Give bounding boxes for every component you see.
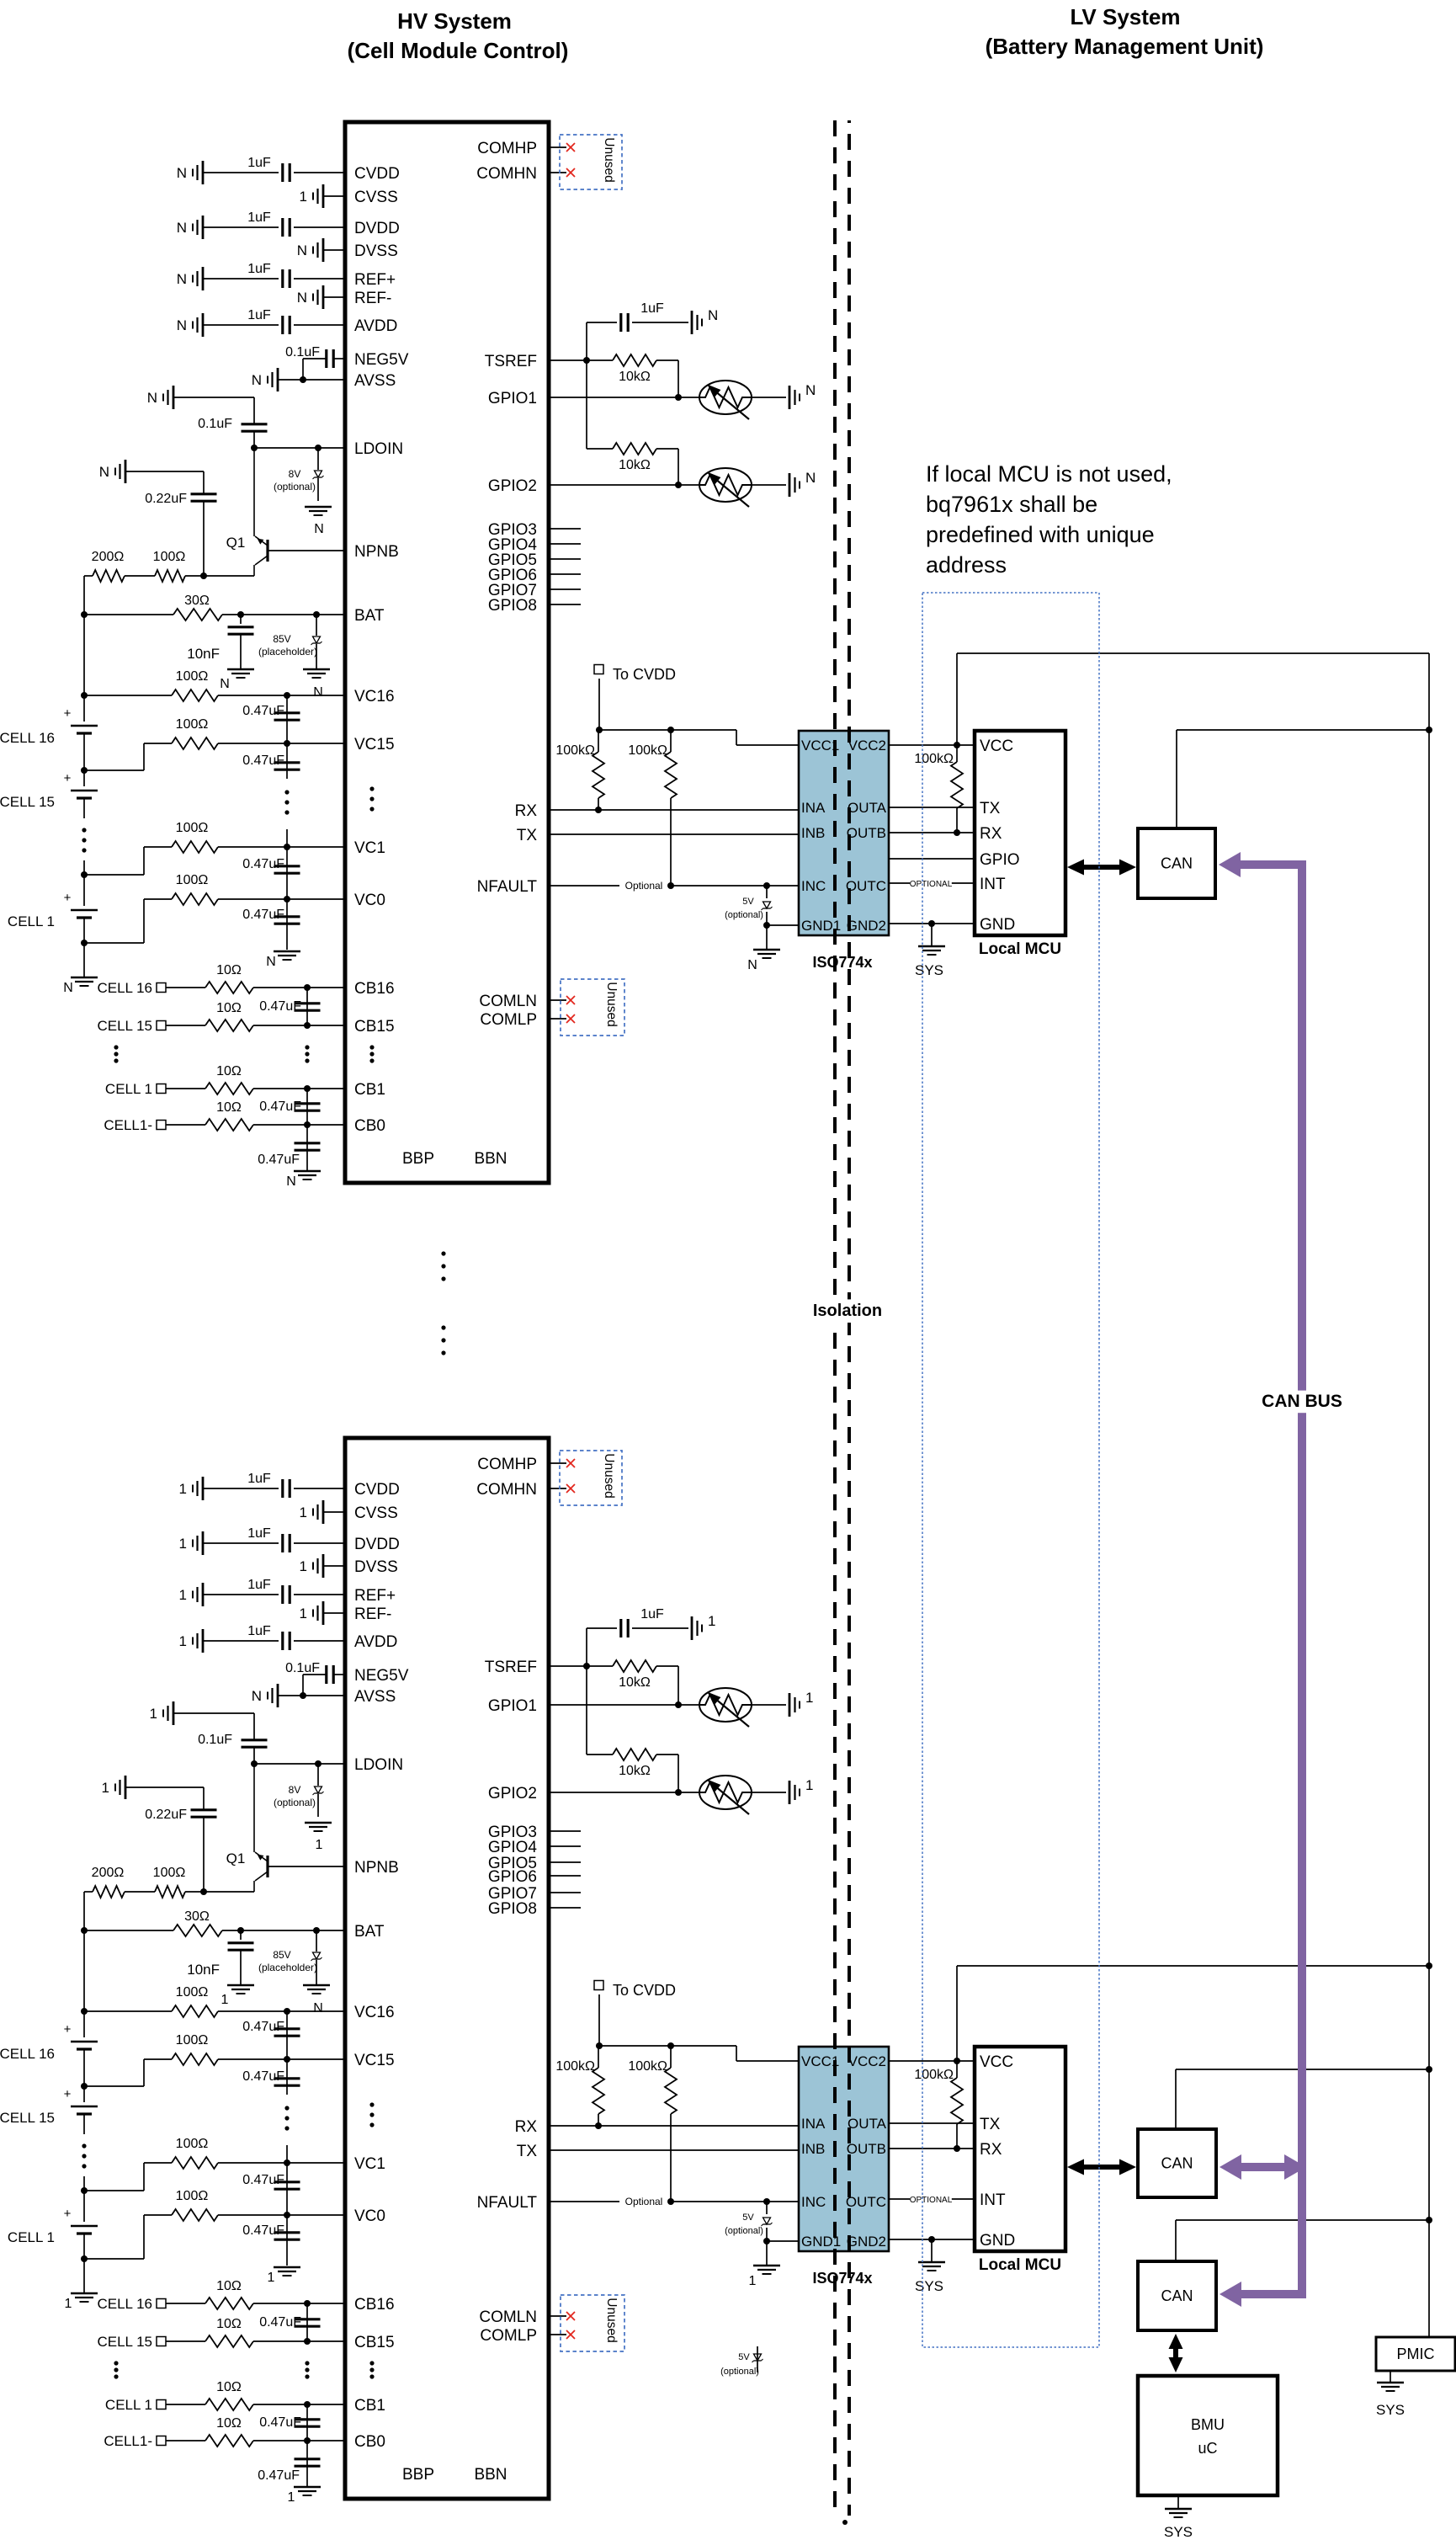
svg-text:TSREF: TSREF <box>485 353 537 370</box>
svg-text:N: N <box>177 317 187 333</box>
svg-text:N: N <box>297 242 307 258</box>
svg-text:CB16: CB16 <box>354 2296 395 2314</box>
svg-text:5V: 5V <box>738 2352 750 2362</box>
svg-text:10nF: 10nF <box>187 1962 220 1978</box>
svg-text:1: 1 <box>150 1706 157 1722</box>
svg-text:100Ω: 100Ω <box>176 717 209 732</box>
svg-text:1uF: 1uF <box>640 301 664 316</box>
svg-text:CELL 16: CELL 16 <box>0 730 55 746</box>
svg-text:CELL 16: CELL 16 <box>0 2046 55 2062</box>
svg-text:VC1: VC1 <box>354 839 385 857</box>
svg-text:AVSS: AVSS <box>354 372 396 390</box>
svg-text:0.47uF: 0.47uF <box>259 2315 301 2330</box>
svg-text:1: 1 <box>179 1481 187 1497</box>
svg-text:AVSS: AVSS <box>354 1688 396 1706</box>
svg-text:GND2: GND2 <box>847 2234 886 2250</box>
svg-text:ISO774x: ISO774x <box>812 954 872 971</box>
svg-text:0.47uF: 0.47uF <box>242 2223 284 2238</box>
svg-text:(optional): (optional) <box>725 2226 763 2236</box>
svg-text:VC16: VC16 <box>354 688 395 706</box>
svg-text:N: N <box>708 307 718 323</box>
svg-text:SYS: SYS <box>915 962 943 978</box>
svg-text:CVDD: CVDD <box>354 1481 400 1499</box>
svg-text:CELL 1: CELL 1 <box>8 913 55 929</box>
svg-text:N: N <box>99 464 109 480</box>
svg-text:0.1uF: 0.1uF <box>285 1661 320 1675</box>
svg-text:10kΩ: 10kΩ <box>619 1764 651 1778</box>
svg-text:BBN: BBN <box>474 2466 507 2484</box>
svg-text:Q1: Q1 <box>226 1850 246 1866</box>
svg-text:N: N <box>63 981 73 995</box>
svg-text:Isolation: Isolation <box>813 1302 882 1320</box>
svg-text:ISO774x: ISO774x <box>812 2270 872 2287</box>
svg-text:VC1: VC1 <box>354 2155 385 2173</box>
svg-text:100kΩ: 100kΩ <box>555 2059 595 2074</box>
svg-text:1: 1 <box>288 2490 295 2505</box>
svg-text:REF+: REF+ <box>354 1587 396 1605</box>
svg-text:200Ω: 200Ω <box>92 1866 125 1880</box>
svg-text:1: 1 <box>708 1613 715 1629</box>
svg-text:CB0: CB0 <box>354 2433 385 2451</box>
svg-text:GND: GND <box>980 2232 1015 2250</box>
svg-text:To CVDD: To CVDD <box>613 666 676 683</box>
svg-text:VC15: VC15 <box>354 736 395 753</box>
svg-text:CB15: CB15 <box>354 1018 395 1036</box>
svg-text:10Ω: 10Ω <box>216 1064 242 1078</box>
svg-text:0.47uF: 0.47uF <box>242 908 284 922</box>
svg-text:N: N <box>805 470 816 486</box>
svg-text:AVDD: AVDD <box>354 1633 397 1651</box>
svg-text:VC0: VC0 <box>354 2207 385 2225</box>
svg-text:Q1: Q1 <box>226 535 246 551</box>
svg-text:COMHP: COMHP <box>477 1456 537 1473</box>
svg-text:CAN: CAN <box>1161 2287 1193 2304</box>
svg-text:0.47uF: 0.47uF <box>259 1100 301 1114</box>
svg-text:85V: 85V <box>273 633 290 645</box>
svg-text:INB: INB <box>801 2141 825 2157</box>
svg-text:CELL1-: CELL1- <box>104 2433 152 2449</box>
svg-text:CELL 1: CELL 1 <box>8 2229 55 2245</box>
svg-text:+: + <box>64 891 72 905</box>
svg-text:1uF: 1uF <box>247 210 271 225</box>
svg-text:LDOIN: LDOIN <box>354 440 403 458</box>
svg-text:VC16: VC16 <box>354 2004 395 2021</box>
svg-text:GPIO8: GPIO8 <box>488 1900 537 1918</box>
svg-text:VC0: VC0 <box>354 892 385 909</box>
svg-text:100kΩ: 100kΩ <box>628 743 667 758</box>
svg-text:0.1uF: 0.1uF <box>198 1733 232 1747</box>
svg-text:1: 1 <box>805 1690 813 1706</box>
svg-text:100kΩ: 100kΩ <box>628 2059 667 2074</box>
svg-text:0.47uF: 0.47uF <box>258 2468 300 2483</box>
svg-text:TX: TX <box>517 827 538 844</box>
svg-text:N: N <box>297 290 307 306</box>
svg-text:LDOIN: LDOIN <box>354 1756 403 1774</box>
svg-text:0.1uF: 0.1uF <box>285 345 320 359</box>
svg-text:CB15: CB15 <box>354 2334 395 2351</box>
svg-text:1uF: 1uF <box>247 1624 271 1638</box>
svg-text:1uF: 1uF <box>247 1578 271 1592</box>
svg-text:(Cell Module Control): (Cell Module Control) <box>348 38 569 63</box>
svg-text:CELL 16: CELL 16 <box>97 2296 152 2312</box>
svg-text:+: + <box>64 706 72 721</box>
svg-text:Optional: Optional <box>625 880 663 892</box>
svg-text:TX: TX <box>517 2143 538 2160</box>
svg-text:VCC2: VCC2 <box>848 2053 886 2069</box>
svg-text:8V: 8V <box>289 468 301 480</box>
svg-text:1uF: 1uF <box>640 1607 664 1621</box>
svg-text:Unused: Unused <box>602 1453 616 1498</box>
svg-text:TX: TX <box>980 2116 1001 2133</box>
svg-text:CVSS: CVSS <box>354 189 398 206</box>
svg-text:(placeholder): (placeholder) <box>258 1962 317 1973</box>
svg-text:N: N <box>747 958 757 972</box>
svg-text:Unused: Unused <box>604 982 619 1026</box>
svg-text:+: + <box>64 2207 72 2221</box>
svg-text:100kΩ: 100kΩ <box>914 2068 954 2082</box>
svg-text:COMHN: COMHN <box>476 1481 537 1499</box>
svg-text:CB1: CB1 <box>354 1081 385 1099</box>
svg-text:8V: 8V <box>289 1784 301 1796</box>
svg-text:INT: INT <box>980 876 1006 893</box>
svg-text:10Ω: 10Ω <box>216 2279 242 2293</box>
svg-text:CELL 15: CELL 15 <box>97 2334 152 2350</box>
svg-text:RX: RX <box>980 2141 1002 2159</box>
svg-text:0.47uF: 0.47uF <box>242 857 284 871</box>
svg-text:N: N <box>266 955 276 969</box>
svg-text:100Ω: 100Ω <box>176 2033 209 2047</box>
svg-text:Local MCU: Local MCU <box>979 940 1061 958</box>
svg-text:INC: INC <box>801 2194 826 2210</box>
svg-text:NEG5V: NEG5V <box>354 1667 409 1685</box>
svg-text:(optional): (optional) <box>274 1797 316 1808</box>
svg-text:N: N <box>805 382 816 398</box>
svg-text:1: 1 <box>179 1633 187 1649</box>
svg-text:CVSS: CVSS <box>354 1504 398 1522</box>
svg-text:address: address <box>926 552 1007 578</box>
svg-text:100Ω: 100Ω <box>176 873 209 887</box>
svg-text:1: 1 <box>65 2297 72 2311</box>
svg-text:To CVDD: To CVDD <box>613 1982 676 1999</box>
svg-text:100Ω: 100Ω <box>176 821 209 835</box>
svg-text:100Ω: 100Ω <box>176 1985 209 2000</box>
svg-text:N: N <box>313 685 323 700</box>
svg-text:0.47uF: 0.47uF <box>242 753 284 768</box>
svg-text:N: N <box>252 372 262 388</box>
svg-text:CELL 1: CELL 1 <box>105 1081 152 1097</box>
svg-text:+: + <box>64 2022 72 2037</box>
svg-text:OUTA: OUTA <box>848 800 887 816</box>
svg-text:REF+: REF+ <box>354 271 396 289</box>
svg-text:CAN BUS: CAN BUS <box>1262 1392 1342 1411</box>
svg-text:Unused: Unused <box>604 2298 619 2342</box>
svg-text:100kΩ: 100kΩ <box>914 752 954 766</box>
svg-text:INA: INA <box>801 800 826 816</box>
svg-text:(optional): (optional) <box>725 910 763 920</box>
svg-text:GPIO6: GPIO6 <box>488 1868 537 1886</box>
svg-text:0.47uF: 0.47uF <box>259 2415 301 2430</box>
svg-text:REF-: REF- <box>354 290 391 307</box>
svg-text:30Ω: 30Ω <box>184 594 210 608</box>
svg-text:5V: 5V <box>742 2213 754 2223</box>
svg-text:+: + <box>64 771 72 785</box>
svg-text:CELL1-: CELL1- <box>104 1117 152 1133</box>
svg-text:1: 1 <box>179 1536 187 1552</box>
svg-text:(placeholder): (placeholder) <box>258 646 317 658</box>
svg-text:10Ω: 10Ω <box>216 2416 242 2431</box>
svg-text:10Ω: 10Ω <box>216 963 242 977</box>
svg-text:DVSS: DVSS <box>354 1558 398 1576</box>
svg-text:GPIO: GPIO <box>980 851 1020 869</box>
svg-text:COMLP: COMLP <box>480 1011 537 1029</box>
svg-text:PMIC: PMIC <box>1397 2346 1435 2362</box>
svg-text:BAT: BAT <box>354 607 385 625</box>
svg-text:1: 1 <box>300 1605 307 1621</box>
svg-text:BBP: BBP <box>402 2466 434 2484</box>
svg-text:0.1uF: 0.1uF <box>198 417 232 431</box>
svg-text:CB16: CB16 <box>354 980 395 998</box>
svg-text:100Ω: 100Ω <box>176 2189 209 2203</box>
svg-text:NPNB: NPNB <box>354 543 399 561</box>
svg-text:100kΩ: 100kΩ <box>555 743 595 758</box>
svg-text:0.22uF: 0.22uF <box>145 1808 187 1822</box>
svg-text:1: 1 <box>268 2271 275 2285</box>
svg-text:1: 1 <box>102 1780 109 1796</box>
svg-text:NPNB: NPNB <box>354 1859 399 1877</box>
svg-text:Optional: Optional <box>625 2196 663 2207</box>
svg-text:COMLN: COMLN <box>479 993 537 1010</box>
svg-text:10kΩ: 10kΩ <box>619 370 651 384</box>
svg-text:1: 1 <box>300 1504 307 1520</box>
svg-text:0.47uF: 0.47uF <box>259 999 301 1014</box>
svg-text:OUTB: OUTB <box>847 2141 886 2157</box>
svg-text:10Ω: 10Ω <box>216 1100 242 1115</box>
svg-text:CAN: CAN <box>1161 855 1193 872</box>
svg-text:BBP: BBP <box>402 1150 434 1168</box>
svg-text:0.47uF: 0.47uF <box>242 2069 284 2084</box>
svg-text:(Battery Management Unit): (Battery Management Unit) <box>986 34 1264 59</box>
svg-text:BBN: BBN <box>474 1150 507 1168</box>
svg-text:0.47uF: 0.47uF <box>242 704 284 718</box>
svg-text:TX: TX <box>980 800 1001 817</box>
svg-text:N: N <box>286 1174 296 1189</box>
svg-text:1uF: 1uF <box>247 1526 271 1541</box>
svg-text:NFAULT: NFAULT <box>477 2194 538 2212</box>
svg-text:1uF: 1uF <box>247 262 271 276</box>
svg-text:10nF: 10nF <box>187 646 220 662</box>
svg-text:GND2: GND2 <box>847 918 886 934</box>
svg-text:1: 1 <box>805 1777 813 1793</box>
svg-text:BAT: BAT <box>354 1923 385 1941</box>
svg-text:(optional): (optional) <box>720 2367 759 2377</box>
svg-text:LV System: LV System <box>1070 4 1180 29</box>
svg-text:COMLP: COMLP <box>480 2327 537 2345</box>
svg-text:1uF: 1uF <box>247 156 271 170</box>
svg-text:CB1: CB1 <box>354 2397 385 2415</box>
svg-text:CELL 15: CELL 15 <box>0 794 55 810</box>
svg-text:CELL 1: CELL 1 <box>105 2397 152 2413</box>
svg-text:bq7961x shall be: bq7961x shall be <box>926 492 1097 517</box>
svg-text:100Ω: 100Ω <box>176 669 209 684</box>
svg-text:DVSS: DVSS <box>354 242 398 260</box>
svg-text:N: N <box>147 390 157 406</box>
svg-text:COMLN: COMLN <box>479 2308 537 2326</box>
svg-text:AVDD: AVDD <box>354 317 397 335</box>
svg-text:10kΩ: 10kΩ <box>619 1675 651 1690</box>
svg-text:30Ω: 30Ω <box>184 1909 210 1924</box>
svg-text:REF-: REF- <box>354 1605 391 1623</box>
svg-text:1: 1 <box>221 1993 229 2007</box>
svg-text:predefined with unique: predefined with unique <box>926 522 1155 547</box>
svg-text:HV System: HV System <box>397 8 512 34</box>
svg-text:SYS: SYS <box>1164 2524 1193 2540</box>
svg-text:OUTC: OUTC <box>846 878 886 894</box>
svg-text:CELL 16: CELL 16 <box>97 980 152 996</box>
svg-text:1: 1 <box>316 1838 323 1852</box>
svg-text:VCC: VCC <box>980 2053 1013 2071</box>
svg-text:+: + <box>64 2087 72 2101</box>
svg-text:OPTIONAL: OPTIONAL <box>910 880 953 889</box>
svg-text:1: 1 <box>749 2274 757 2288</box>
svg-text:Local MCU: Local MCU <box>979 2256 1061 2274</box>
svg-text:GND: GND <box>980 916 1015 934</box>
svg-text:100Ω: 100Ω <box>153 550 186 564</box>
svg-text:85V: 85V <box>273 1949 290 1961</box>
svg-text:200Ω: 200Ω <box>92 550 125 564</box>
svg-text:INA: INA <box>801 2116 826 2132</box>
svg-text:RX: RX <box>515 2118 538 2136</box>
svg-text:10Ω: 10Ω <box>216 1001 242 1015</box>
svg-text:1: 1 <box>300 1558 307 1574</box>
svg-text:INC: INC <box>801 878 826 894</box>
svg-text:CELL 15: CELL 15 <box>0 2110 55 2126</box>
svg-text:DVDD: DVDD <box>354 1536 400 1553</box>
svg-text:N: N <box>177 271 187 287</box>
svg-text:CAN: CAN <box>1161 2155 1193 2172</box>
svg-text:0.47uF: 0.47uF <box>242 2173 284 2187</box>
svg-text:GPIO2: GPIO2 <box>488 477 537 495</box>
svg-text:BMU: BMU <box>1191 2416 1225 2433</box>
svg-text:CVDD: CVDD <box>354 165 400 183</box>
svg-text:INB: INB <box>801 825 825 841</box>
svg-text:GPIO2: GPIO2 <box>488 1785 537 1802</box>
svg-text:DVDD: DVDD <box>354 220 400 237</box>
svg-text:1: 1 <box>300 189 307 205</box>
svg-text:100Ω: 100Ω <box>176 2137 209 2151</box>
svg-text:N: N <box>314 522 324 536</box>
svg-text:GPIO1: GPIO1 <box>488 390 537 407</box>
svg-text:TSREF: TSREF <box>485 1659 537 1676</box>
svg-text:N: N <box>177 220 187 236</box>
svg-text:Unused: Unused <box>602 137 616 182</box>
svg-text:1uF: 1uF <box>247 308 271 322</box>
svg-text:1: 1 <box>179 1587 187 1603</box>
svg-text:10Ω: 10Ω <box>216 2317 242 2331</box>
svg-text:0.47uF: 0.47uF <box>242 2020 284 2034</box>
svg-text:N: N <box>313 2001 323 2015</box>
svg-text:COMHP: COMHP <box>477 140 537 157</box>
svg-text:N: N <box>220 677 230 691</box>
svg-text:1uF: 1uF <box>247 1472 271 1486</box>
svg-text:CELL 15: CELL 15 <box>97 1018 152 1034</box>
svg-text:VC15: VC15 <box>354 2052 395 2069</box>
svg-text:VCC: VCC <box>980 738 1013 755</box>
svg-text:10Ω: 10Ω <box>216 2380 242 2394</box>
svg-text:NEG5V: NEG5V <box>354 351 409 369</box>
svg-text:OUTB: OUTB <box>847 825 886 841</box>
svg-text:NFAULT: NFAULT <box>477 878 538 896</box>
svg-text:GPIO4: GPIO4 <box>488 1839 538 1856</box>
svg-text:COMHN: COMHN <box>476 165 537 183</box>
svg-text:GPIO1: GPIO1 <box>488 1697 537 1715</box>
svg-text:0.22uF: 0.22uF <box>145 492 187 506</box>
svg-text:OPTIONAL: OPTIONAL <box>910 2196 953 2205</box>
svg-text:OUTC: OUTC <box>846 2194 886 2210</box>
svg-text:100Ω: 100Ω <box>153 1866 186 1880</box>
svg-text:uC: uC <box>1198 2440 1217 2457</box>
svg-text:RX: RX <box>515 802 538 820</box>
svg-text:SYS: SYS <box>1376 2402 1405 2418</box>
svg-text:SYS: SYS <box>915 2278 943 2294</box>
svg-text:10kΩ: 10kΩ <box>619 458 651 472</box>
svg-text:OUTA: OUTA <box>848 2116 887 2132</box>
svg-text:GPIO8: GPIO8 <box>488 597 537 615</box>
svg-text:RX: RX <box>980 825 1002 843</box>
svg-text:0.47uF: 0.47uF <box>258 1153 300 1167</box>
svg-text:N: N <box>177 165 187 181</box>
svg-text:(optional): (optional) <box>274 481 316 493</box>
svg-text:INT: INT <box>980 2191 1006 2209</box>
svg-text:CB0: CB0 <box>354 1117 385 1135</box>
svg-text:5V: 5V <box>742 897 754 907</box>
svg-text:VCC2: VCC2 <box>848 738 886 753</box>
svg-text:If local MCU is not used,: If local MCU is not used, <box>926 461 1172 487</box>
svg-text:N: N <box>252 1688 262 1704</box>
